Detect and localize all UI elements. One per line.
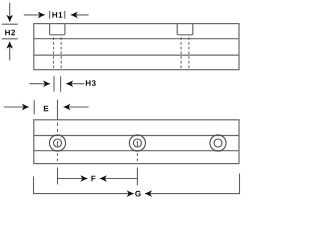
side view internal line lower [34, 54, 239, 56]
hole 3 counterbore circles [210, 135, 226, 151]
hole 1 centerline [58, 123, 138, 164]
hidden hole lines slot 1 [54, 37, 189, 69]
side view rail outline [34, 24, 239, 70]
dimension F [58, 178, 138, 180]
dimension E [4, 100, 89, 120]
label G [135, 191, 140, 197]
dimension H1 [24, 11, 89, 19]
hole 1 extension line [57, 167, 59, 184]
side view internal line upper [34, 38, 239, 40]
dimension H3 [29, 76, 84, 92]
counterbore slot 2 [177, 24, 193, 35]
dimension G left bracket [34, 174, 240, 194]
dimension G right bracket [145, 174, 240, 194]
hidden hole lines slot 2 [180, 37, 182, 69]
hole 1 counterbore circles [49, 135, 226, 151]
label H3 [86, 80, 96, 86]
hole 2 counterbore circles [129, 135, 145, 151]
plan view internal line upper [34, 135, 239, 137]
counterbore slot 1 [50, 24, 65, 35]
plan view rail outline [34, 120, 239, 164]
label F [91, 176, 95, 182]
plan view internal line lower [34, 150, 239, 152]
label H2 [5, 30, 15, 36]
hole 2 centerline [136, 141, 138, 146]
label E [44, 106, 48, 112]
dimension H2 [2, 3, 18, 61]
label H1 [52, 12, 62, 18]
hole 2 extension line [136, 167, 138, 185]
